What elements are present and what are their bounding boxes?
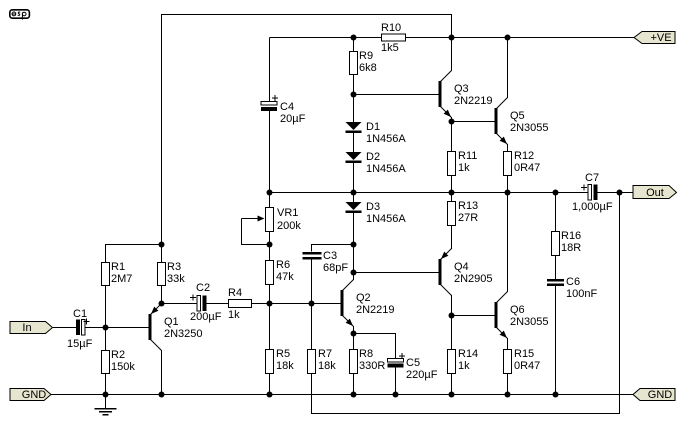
terminal GND left — [10, 389, 51, 402]
svg-text:In: In — [22, 322, 31, 334]
transistor Q1 2N3250 PNP — [149, 304, 203, 351]
wire C4 column x=269 — [269, 38, 271, 193]
wire Q2 emitter to C5 y=333 — [354, 334, 396, 395]
svg-text:C5: C5 — [406, 357, 420, 369]
node C7 / Out / feedback — [617, 190, 623, 196]
node Q3 emitter / Q5 base / R11 — [449, 119, 455, 125]
resistor R7 18k — [308, 348, 337, 374]
svg-text:VR1: VR1 — [277, 207, 298, 219]
wire R1/R2 column x=105 — [105, 286, 107, 409]
node R8 bottom on ground rail — [351, 392, 357, 398]
terminal Out — [633, 186, 677, 200]
svg-text:1N456A: 1N456A — [366, 133, 406, 145]
svg-text:C1: C1 — [73, 308, 87, 320]
wire R9/diode column x=353 — [353, 38, 355, 281]
node R2 bottom / chassis ground — [103, 392, 109, 398]
wire Q3 base y=94 — [354, 94, 439, 96]
svg-text:C3: C3 — [323, 250, 337, 262]
node C1 / R1 / R2 / Q1 base — [103, 325, 109, 331]
svg-text:330R: 330R — [359, 360, 385, 372]
svg-text:+VE: +VE — [650, 32, 671, 44]
node D2 / D3 on output rail — [351, 190, 357, 196]
svg-text:R14: R14 — [458, 348, 478, 360]
node R9 bottom / D1 / Q3 base — [351, 92, 357, 98]
node R15 bottom on ground rail — [505, 392, 511, 398]
resistor R10 1k5 — [381, 22, 406, 54]
svg-text:Q6: Q6 — [510, 304, 525, 316]
resistor R6 47k — [266, 259, 295, 285]
svg-text:2N2219: 2N2219 — [454, 95, 493, 107]
svg-text:6k8: 6k8 — [359, 62, 377, 74]
svg-text:GND: GND — [22, 389, 47, 401]
svg-text:R16: R16 — [561, 230, 581, 242]
svg-text:68pF: 68pF — [323, 262, 348, 274]
svg-text:Q3: Q3 — [454, 83, 469, 95]
svg-text:100nF: 100nF — [566, 288, 597, 300]
svg-text:R10: R10 — [381, 22, 401, 34]
capacitor C4 20uF — [261, 95, 306, 125]
svg-text:R15: R15 — [514, 348, 534, 360]
svg-text:220µF: 220µF — [406, 369, 438, 381]
resistor R3 33k — [158, 261, 186, 286]
svg-text:1k: 1k — [458, 360, 470, 372]
svg-text:47k: 47k — [276, 271, 294, 283]
svg-text:200µF: 200µF — [190, 311, 222, 323]
diode D2 1N456A — [346, 151, 407, 175]
svg-text:R8: R8 — [359, 348, 373, 360]
svg-text:R6: R6 — [276, 259, 290, 271]
wire R1 top link y=244 — [106, 245, 162, 263]
wire R16/C6 column x=555 — [555, 193, 557, 395]
resistor R12 0R47 — [504, 150, 541, 176]
node C6 bottom on ground rail — [553, 392, 559, 398]
ground symbol chassis — [95, 409, 117, 415]
node D3 / Q2 collector / Q4 base — [351, 270, 357, 276]
wire C3 branch and R7 column x=311 — [312, 245, 354, 350]
capacitor C2 200uF — [190, 282, 222, 323]
svg-text:C2: C2 — [196, 282, 210, 294]
node R14 bottom on ground rail — [449, 392, 455, 398]
svg-text:2N2219: 2N2219 — [356, 304, 395, 316]
wire R3 column x=161 — [161, 245, 163, 395]
node R12 / Q6 collector on output rail — [505, 190, 511, 196]
svg-text:18k: 18k — [276, 360, 294, 372]
svg-text:2N3055: 2N3055 — [510, 316, 549, 328]
wire output rail y=192 — [270, 192, 634, 194]
svg-text:R13: R13 — [458, 200, 478, 212]
svg-text:2N3055: 2N3055 — [510, 122, 549, 134]
svg-text:R1: R1 — [111, 261, 125, 273]
node VR1 bottom / wiper / R6 top — [267, 242, 273, 248]
svg-text:18k: 18k — [318, 360, 336, 372]
svg-text:D2: D2 — [366, 151, 380, 163]
wire Q2 emitter/R8 column x=353 — [353, 326, 355, 395]
svg-text:1k: 1k — [228, 309, 240, 321]
wire Q4 base y=272 — [354, 272, 439, 274]
svg-text:2N2905: 2N2905 — [454, 273, 493, 285]
node R3 bottom / Q1 emitter — [159, 301, 165, 307]
svg-text:200k: 200k — [277, 220, 301, 232]
svg-text:20µF: 20µF — [280, 113, 306, 125]
svg-text:0R47: 0R47 — [514, 162, 540, 174]
wire ground rail y=394 — [51, 394, 633, 396]
svg-text:C7: C7 — [585, 172, 599, 184]
resistor R8 330R — [350, 348, 386, 374]
node R16 top on output rail — [553, 190, 559, 196]
node R1 / R3 top — [159, 242, 165, 248]
svg-text:1N456A: 1N456A — [366, 163, 406, 175]
resistor R9 6k8 — [350, 50, 377, 75]
resistor R16 18R — [552, 230, 582, 256]
node Q5 collector on +VE rail — [505, 35, 511, 41]
node Q4 collector / R14 / Q6 base — [449, 313, 455, 319]
wire Q3/R11/R13/Q4/R14 column x=451 — [451, 117, 453, 395]
potentiometer VR1 200k — [242, 207, 302, 245]
svg-text:150k: 150k — [111, 361, 135, 373]
node R9 top on +VE rail — [351, 35, 357, 41]
svg-text:D1: D1 — [366, 121, 380, 133]
node C3 bottom / R7 top / Q2 base — [309, 301, 315, 307]
capacitor C6 100nF — [547, 276, 597, 300]
svg-text:R12: R12 — [514, 150, 534, 162]
wire VR1/R6/R5 column x=269 — [269, 193, 271, 395]
wire +VE rail y=37 — [270, 37, 635, 39]
resistor R4 1k — [228, 287, 252, 321]
svg-text:C6: C6 — [566, 276, 580, 288]
node D3 / C3 junction — [351, 242, 357, 248]
svg-text:18R: 18R — [561, 242, 581, 254]
svg-text:15µF: 15µF — [67, 338, 93, 350]
svg-text:1k5: 1k5 — [381, 42, 399, 54]
transistor Q4 2N2905 PNP — [439, 249, 493, 296]
resistor R15 0R47 — [504, 348, 541, 374]
svg-text:Q4: Q4 — [454, 261, 469, 273]
wire top bootstrap run from R1/R3 node up and across to Q3 collector column — [162, 15, 452, 245]
resistor R13 27R — [448, 200, 479, 226]
svg-text:R5: R5 — [276, 348, 290, 360]
resistor R5 18k — [266, 348, 295, 374]
svg-text:R7: R7 — [318, 348, 332, 360]
svg-text:Q2: Q2 — [356, 292, 371, 304]
node R10 right / Q3 collector — [449, 35, 455, 41]
node R5 bottom on ground rail — [267, 392, 273, 398]
transistor Q3 2N2219 NPN — [439, 71, 493, 118]
terminal +VE — [634, 32, 675, 45]
resistor R2 150k — [102, 349, 136, 374]
resistor R1 2M7 — [102, 261, 133, 286]
svg-text:R2: R2 — [111, 349, 125, 361]
transistor Q2 2N2219 NPN — [341, 280, 395, 327]
wire Q3 emitter to Q5 base y=121 — [452, 121, 495, 123]
terminal GND right — [633, 389, 675, 402]
wire feedback loop bottom y=413 — [312, 193, 620, 414]
transistor Q5 2N3055 NPN — [495, 98, 549, 145]
svg-text:Q1: Q1 — [164, 316, 179, 328]
diode D3 1N456A — [346, 201, 407, 225]
svg-text:0R47: 0R47 — [514, 360, 540, 372]
wire Q5/R12/Q6/R15 column x=507 — [507, 38, 509, 395]
svg-text:33k: 33k — [167, 273, 185, 285]
capacitor C3 68pF — [303, 250, 349, 274]
svg-text:2N3250: 2N3250 — [164, 328, 203, 340]
svg-text:R11: R11 — [458, 150, 477, 162]
node Q2 emitter / R8 / C5 — [351, 331, 357, 337]
resistor R14 1k — [448, 348, 479, 374]
capacitor C7 1000uF — [572, 172, 613, 213]
capacitor C5 220uF — [388, 353, 438, 381]
svg-text:R3: R3 — [167, 261, 181, 273]
svg-text:R4: R4 — [228, 287, 242, 299]
transistor Q6 2N3055 NPN — [495, 292, 549, 339]
node R11 / R13 on output rail — [449, 190, 455, 196]
svg-text:C4: C4 — [280, 101, 294, 113]
svg-text:1N456A: 1N456A — [366, 213, 406, 225]
svg-text:Q5: Q5 — [510, 110, 525, 122]
resistor R11 1k — [448, 150, 478, 176]
svg-text:D3: D3 — [366, 201, 380, 213]
node Q1 collector on ground rail — [159, 392, 165, 398]
svg-text:GND: GND — [648, 389, 673, 401]
wire emitter line y=303 — [162, 303, 341, 305]
terminal In — [10, 322, 53, 335]
diode D1 1N456A — [346, 121, 407, 145]
svg-text:Out: Out — [646, 187, 664, 199]
wire Q4 collector to Q6 base y=315 — [452, 315, 495, 317]
svg-text:R9: R9 — [359, 50, 373, 62]
wire input base line y=327 — [53, 327, 149, 329]
capacitor C1 15uF — [67, 308, 93, 350]
node C4 / VR1 top on output rail — [267, 190, 273, 196]
ESP logo — [10, 10, 30, 20]
svg-text:1,000µF: 1,000µF — [572, 201, 613, 213]
node R4 / R6 bottom / R5 top — [267, 301, 273, 307]
svg-text:1k: 1k — [458, 162, 470, 174]
node C5 bottom on ground rail — [393, 392, 399, 398]
svg-text:27R: 27R — [458, 212, 478, 224]
svg-text:2M7: 2M7 — [111, 273, 132, 285]
